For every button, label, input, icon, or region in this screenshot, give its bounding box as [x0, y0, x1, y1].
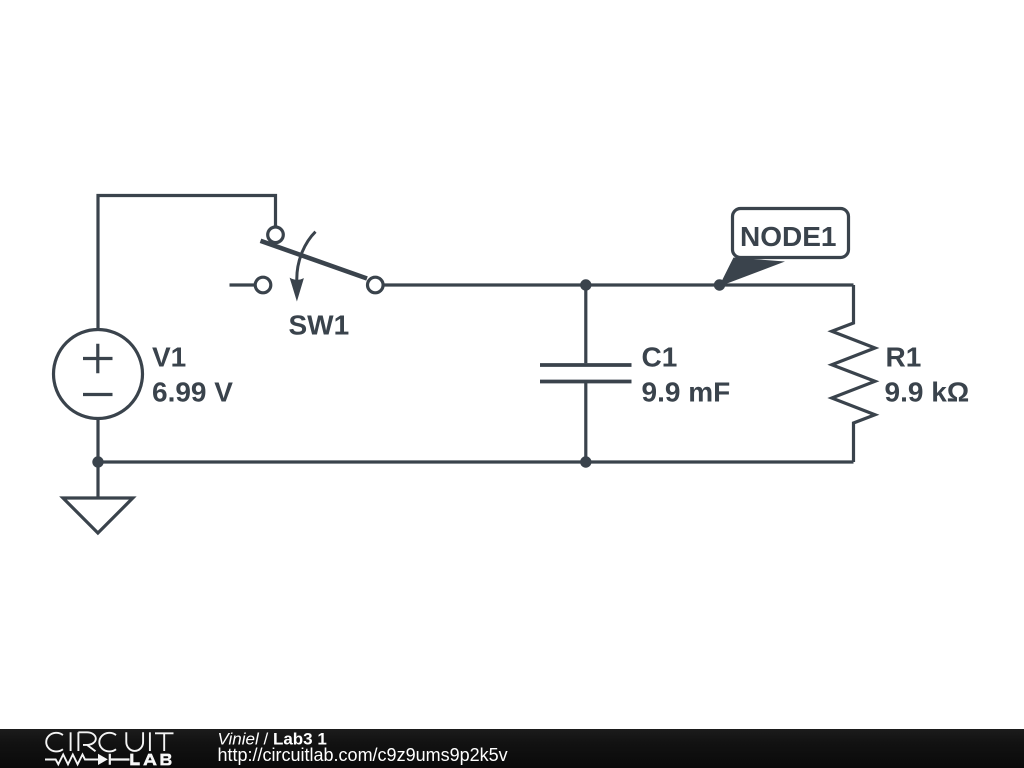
switch SW1 right pin: [368, 277, 384, 293]
logo letter U: [126, 732, 143, 751]
bottom rail wire: [98, 460, 854, 463]
logo letter C2: [99, 733, 116, 752]
switch SW1 left pin: [255, 277, 271, 293]
svg-text:6.99 V: 6.99 V: [152, 377, 233, 408]
logo resistor squiggle: [45, 755, 98, 765]
voltage source V1: [54, 330, 143, 419]
logo letter C: [46, 733, 63, 752]
capacitor C1 top lead wire: [584, 285, 587, 363]
junction dot at V1 bottom: [92, 456, 103, 467]
logo letter T: [155, 733, 174, 751]
logo LAB letter A: [143, 754, 157, 766]
NODE1 callout box: [733, 209, 849, 258]
switch SW1 top pin: [268, 227, 284, 243]
logo diode cathode bar: [110, 754, 130, 765]
V1 minus sign: [83, 393, 113, 396]
footer bar: [0, 729, 1024, 768]
V1 plus sign: [83, 344, 113, 373]
resistor R1 lead and zigzag: [832, 285, 875, 462]
svg-text:V1: V1: [152, 342, 186, 373]
ground stem wire: [96, 462, 99, 498]
capacitor C1 top plate: [540, 363, 632, 367]
svg-text:9.9 kΩ: 9.9 kΩ: [885, 377, 970, 408]
logo letter R: [78, 732, 95, 751]
capacitor C1 bottom plate: [540, 380, 632, 384]
svg-text:9.9 mF: 9.9 mF: [642, 377, 731, 408]
ground symbol: [63, 498, 133, 533]
logo letter I2: [149, 732, 151, 751]
capacitor C1 bottom lead wire: [584, 383, 587, 462]
switch SW1 blade: [261, 241, 368, 279]
top rail wire switch to R1: [384, 283, 853, 286]
svg-text:NODE1: NODE1: [740, 221, 836, 252]
junction dot at C1 bottom: [580, 456, 591, 467]
svg-text:http://circuitlab.com/c9z9ums9: http://circuitlab.com/c9z9ums9p2k5v: [218, 745, 508, 765]
wire V1 top to switch: [98, 196, 276, 330]
switch SW1 arrowhead: [290, 278, 304, 302]
logo diode triangle: [98, 754, 108, 765]
logo LAB letter B: [160, 754, 171, 766]
svg-text:C1: C1: [642, 342, 678, 373]
NODE1 callout pointer: [719, 258, 785, 287]
node NODE1 junction dot: [714, 279, 725, 290]
svg-text:R1: R1: [886, 342, 922, 373]
switch SW1 left stub wire: [230, 283, 255, 286]
junction dot at C1 top: [580, 279, 591, 290]
svg-text:SW1: SW1: [289, 310, 350, 341]
switch SW1 arrow arc: [297, 232, 316, 280]
logo letter I: [70, 732, 72, 751]
logo LAB letter L: [130, 754, 140, 766]
wire V1 bottom: [96, 418, 99, 462]
